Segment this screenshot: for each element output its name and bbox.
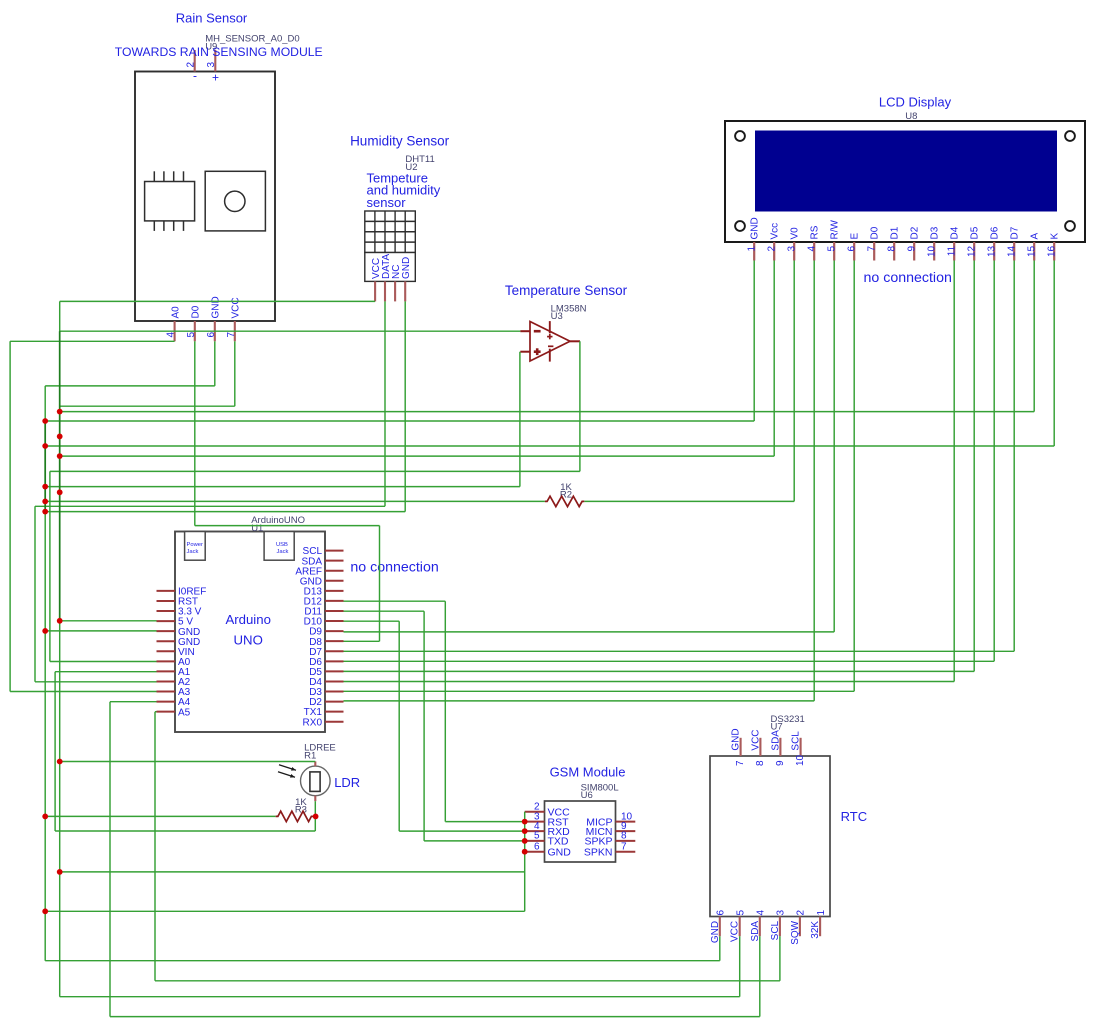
svg-text:10: 10	[795, 754, 806, 766]
svg-text:RX0: RX0	[303, 717, 323, 728]
svg-text:4: 4	[166, 332, 177, 338]
svg-text:Rain Sensor: Rain Sensor	[176, 11, 248, 26]
svg-text:GND: GND	[548, 847, 572, 859]
svg-text:7: 7	[226, 332, 237, 338]
svg-text:E: E	[849, 233, 860, 240]
svg-text:D0: D0	[869, 226, 880, 239]
svg-text:R/W: R/W	[829, 220, 840, 240]
svg-text:4: 4	[807, 245, 818, 251]
svg-text:SDA: SDA	[770, 730, 781, 751]
svg-text:10: 10	[927, 245, 938, 257]
svg-text:13: 13	[987, 245, 998, 257]
svg-text:Humidity Sensor: Humidity Sensor	[350, 133, 450, 148]
svg-text:D3: D3	[929, 226, 940, 239]
svg-text:D6: D6	[989, 226, 1000, 239]
svg-text:UNO: UNO	[234, 633, 263, 648]
svg-text:11: 11	[947, 245, 958, 256]
svg-text:K: K	[1049, 233, 1060, 240]
svg-text:7: 7	[867, 245, 878, 251]
svg-text:2: 2	[796, 910, 807, 916]
svg-text:D7: D7	[1009, 226, 1020, 239]
svg-text:D4: D4	[949, 226, 960, 239]
svg-text:-: -	[193, 69, 197, 83]
svg-text:6: 6	[534, 842, 540, 853]
svg-text:14: 14	[1007, 245, 1018, 257]
svg-text:SPKN: SPKN	[584, 847, 613, 859]
svg-text:Vcc: Vcc	[769, 223, 780, 240]
svg-text:5: 5	[827, 245, 838, 251]
svg-text:A: A	[1029, 233, 1040, 240]
svg-text:2: 2	[186, 62, 197, 68]
svg-text:7: 7	[735, 760, 746, 766]
svg-text:16: 16	[1047, 245, 1058, 257]
svg-text:U6: U6	[581, 790, 593, 801]
svg-text:LDR: LDR	[334, 775, 360, 790]
svg-text:8: 8	[755, 760, 766, 766]
svg-text:GSM Module: GSM Module	[550, 765, 626, 780]
svg-text:Temperature Sensor: Temperature Sensor	[505, 283, 628, 298]
svg-text:GND: GND	[731, 728, 742, 750]
svg-text:SQW: SQW	[790, 920, 801, 944]
svg-text:A0: A0	[170, 306, 181, 319]
svg-text:D1: D1	[889, 226, 900, 239]
svg-text:no connection: no connection	[864, 270, 952, 286]
svg-text:sensor: sensor	[367, 195, 407, 210]
svg-text:LCD Display: LCD Display	[879, 95, 952, 110]
svg-text:32K: 32K	[810, 921, 821, 939]
svg-text:9: 9	[907, 245, 918, 251]
svg-text:no connection: no connection	[350, 560, 438, 576]
svg-text:12: 12	[967, 245, 978, 257]
svg-text:7: 7	[621, 842, 627, 853]
svg-text:D0: D0	[191, 305, 202, 318]
svg-text:1: 1	[747, 245, 758, 251]
svg-text:5: 5	[534, 831, 540, 842]
svg-text:Arduino: Arduino	[225, 612, 270, 627]
svg-text:6: 6	[847, 245, 858, 251]
svg-text:Power: Power	[187, 542, 204, 548]
svg-text:RS: RS	[809, 225, 820, 239]
svg-text:D5: D5	[969, 226, 980, 239]
svg-text:USB: USB	[276, 542, 288, 548]
svg-text:6: 6	[716, 910, 727, 916]
svg-text:SCL: SCL	[791, 731, 802, 751]
svg-text:R1: R1	[304, 750, 316, 761]
svg-text:1: 1	[816, 910, 827, 916]
svg-text:15: 15	[1027, 245, 1038, 257]
svg-text:VCC: VCC	[231, 297, 242, 318]
svg-text:5: 5	[186, 332, 197, 338]
svg-text:2: 2	[767, 245, 778, 251]
svg-text:4: 4	[756, 910, 767, 916]
svg-text:GND: GND	[749, 217, 760, 239]
svg-text:3: 3	[787, 245, 798, 251]
svg-text:Jack: Jack	[187, 549, 199, 555]
svg-text:TOWARDS RAIN SENSING MODULE: TOWARDS RAIN SENSING MODULE	[115, 45, 323, 59]
svg-text:U1: U1	[251, 523, 263, 534]
svg-text:MH_SENSOR_A0_D0: MH_SENSOR_A0_D0	[205, 34, 300, 45]
svg-text:+: +	[212, 71, 219, 85]
svg-text:U3: U3	[551, 311, 563, 322]
svg-text:D2: D2	[909, 226, 920, 239]
svg-text:Jack: Jack	[277, 549, 289, 555]
svg-text:V0: V0	[789, 227, 800, 240]
svg-text:GND: GND	[401, 257, 412, 279]
svg-text:A5: A5	[178, 707, 191, 718]
svg-text:6: 6	[206, 332, 217, 338]
svg-text:8: 8	[887, 245, 898, 251]
svg-text:GND: GND	[211, 296, 222, 318]
svg-text:3: 3	[776, 910, 787, 916]
svg-text:RTC: RTC	[841, 809, 867, 824]
svg-text:3: 3	[206, 62, 217, 68]
svg-text:5: 5	[735, 910, 746, 916]
svg-text:8: 8	[621, 831, 627, 842]
svg-text:VCC: VCC	[750, 729, 761, 750]
svg-text:9: 9	[775, 760, 786, 766]
svg-text:U8: U8	[905, 111, 917, 122]
